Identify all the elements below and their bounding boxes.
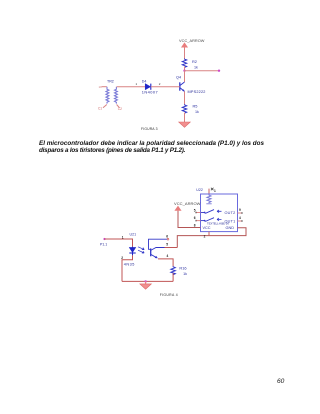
svg-text:R5: R5 (193, 104, 198, 109)
svg-text:OUT2: OUT2 (225, 211, 236, 215)
svg-text:1N4007: 1N4007 (142, 89, 158, 94)
relay VCC pin label (194, 223, 211, 230)
svg-text:D4: D4 (142, 79, 147, 83)
svg-text:2: 2 (121, 256, 123, 260)
svg-text:GND: GND (226, 226, 235, 230)
wire opto collector pin 5 (165, 243, 178, 248)
svg-text:6: 6 (166, 235, 168, 239)
wire node to right output (185, 70, 220, 72)
relay U22 label (196, 188, 203, 192)
svg-text:1k: 1k (195, 110, 199, 114)
relay GND pin label (226, 226, 235, 230)
node output endpoint (218, 70, 220, 72)
wire node to Q4 collector (184, 71, 186, 82)
svg-text:8: 8 (194, 223, 196, 227)
wire R16 to bottom rail (172, 273, 174, 281)
svg-text:MPS2222: MPS2222 (188, 90, 206, 94)
wire primary bottom to terminal (103, 105, 107, 108)
svg-text:VCC: VCC (203, 226, 211, 230)
optocoupler U21 label (130, 233, 137, 237)
ground (179, 122, 191, 127)
relay pin stub left row2 (194, 216, 201, 221)
primary winding (106, 87, 109, 104)
wire Q4 emitter to R5 (184, 91, 186, 104)
relay pin stub right row2 OUT1 (238, 216, 243, 222)
svg-text:C1: C1 (98, 107, 102, 111)
wire P1.1 to opto pin 1 (105, 235, 133, 246)
svg-text:VCC_ARROW: VCC_ARROW (179, 39, 205, 43)
svg-text:1: 1 (136, 82, 138, 86)
paragraph text (39, 140, 264, 155)
svg-text:Q4: Q4 (176, 76, 181, 80)
svg-text:2: 2 (159, 82, 161, 86)
emitter with arrow (151, 254, 157, 258)
optocoupler U21 LED (124, 247, 136, 267)
svg-text:FIGURA 3: FIGURA 3 (141, 127, 158, 131)
power flag VCC_ARROW label (179, 39, 205, 43)
net label P1.1 (100, 243, 107, 247)
relay pin stub right row1 OUT2 (238, 208, 243, 214)
ground 2 (140, 281, 152, 289)
svg-text:VCC_ARROW: VCC_ARROW (174, 201, 201, 206)
diode D4 1N4007 (142, 79, 158, 94)
wire diode to Q4 base, pin 2 (151, 82, 180, 87)
resistor R16 (171, 266, 187, 277)
base pin 6 line (149, 239, 168, 249)
relay contact row 1 (201, 210, 236, 216)
relay U22 body (201, 194, 238, 232)
svg-text:6: 6 (194, 216, 196, 220)
transformer TR2 (98, 80, 122, 111)
resistor R2 (182, 59, 198, 70)
collector (151, 248, 165, 251)
caption FIGURA 4 (160, 293, 178, 297)
opto light arrows (138, 247, 144, 253)
wire secondary to diode, pin 1 (117, 82, 145, 87)
wire top-left terminal to primary (102, 86, 107, 88)
page number (277, 378, 284, 385)
relay coil bottom pin stub (204, 232, 209, 239)
secondary winding (115, 87, 118, 104)
power arrow symbol (182, 43, 187, 49)
svg-text:1k: 1k (194, 66, 198, 70)
svg-text:4: 4 (167, 254, 169, 258)
wire R5 to ground (184, 113, 186, 123)
wire VCC arrow to relay VCC pin (178, 211, 201, 228)
node ground junction (144, 280, 146, 282)
node P1.1 endpoint (103, 238, 105, 240)
svg-text:9: 9 (239, 208, 241, 212)
svg-text:5: 5 (166, 243, 168, 247)
relay contact row 2 (201, 218, 236, 226)
svg-text:TR2: TR2 (107, 80, 114, 84)
svg-text:C2: C2 (118, 107, 122, 111)
wire opto emitter pin 4 to R16 (158, 254, 173, 266)
svg-text:U21: U21 (130, 233, 137, 237)
svg-text:4: 4 (239, 216, 241, 220)
svg-text:1: 1 (122, 235, 124, 239)
svg-text:4N35: 4N35 (124, 262, 135, 266)
power arrow symbol 2 (175, 207, 180, 212)
wire secondary bottom to terminal (117, 105, 120, 108)
svg-text:2: 2 (204, 234, 206, 238)
wire opto pin 2 to bottom rail (121, 255, 132, 281)
wire R2 to node (184, 67, 186, 71)
wire bottom rail (122, 280, 173, 282)
svg-text:TEXTELL-KBE-5V: TEXTELL-KBE-5V (207, 221, 229, 225)
svg-text:FIGURA 4: FIGURA 4 (160, 293, 178, 297)
svg-text:P1.1: P1.1 (100, 243, 107, 247)
wire relay GND to opto collector (177, 228, 246, 248)
caption FIGURA 3 (141, 127, 158, 131)
relay coil (206, 195, 211, 204)
node junction at collector (183, 70, 185, 72)
svg-text:1: 1 (214, 189, 216, 193)
svg-text:U22: U22 (196, 188, 203, 192)
relay pin stub left row1 (194, 208, 201, 213)
transistor Q4 (176, 76, 206, 95)
svg-text:R16: R16 (179, 266, 186, 271)
optocoupler phototransistor (149, 235, 169, 259)
resistor R5 (182, 104, 199, 114)
wire VCC to R2 (184, 49, 186, 59)
svg-text:R2: R2 (192, 59, 197, 64)
relay coil top pin stub (209, 188, 216, 194)
power flag VCC_ARROW label 2 (174, 201, 201, 206)
svg-text:1k: 1k (183, 272, 187, 276)
